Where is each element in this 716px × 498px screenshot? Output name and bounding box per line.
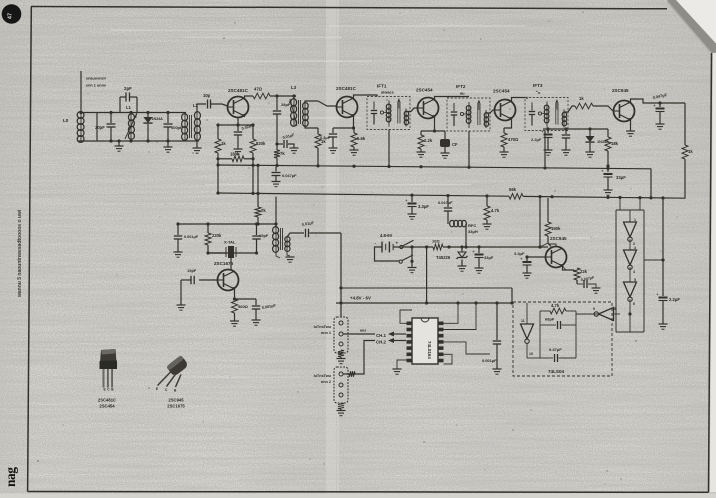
- svg-text:220k: 220k: [212, 233, 222, 238]
- svg-text:30pF: 30pF: [95, 125, 105, 130]
- svg-text:1k: 1k: [579, 96, 584, 101]
- svg-text:0.47μF: 0.47μF: [549, 347, 562, 352]
- svg-text:10p: 10p: [203, 93, 211, 98]
- svg-text:3: 3: [634, 246, 636, 250]
- svg-text:T45226: T45226: [436, 255, 451, 260]
- svg-text:47Ω: 47Ω: [254, 87, 263, 92]
- svg-text:2.2μF: 2.2μF: [531, 137, 542, 142]
- svg-text:RFC: RFC: [468, 223, 476, 228]
- svg-text:22k: 22k: [580, 269, 588, 274]
- svg-text:2SC945: 2SC945: [168, 398, 184, 403]
- svg-text:2SC1675: 2SC1675: [167, 404, 185, 409]
- svg-text:nnn 2: nnn 2: [321, 380, 331, 384]
- svg-text:L3: L3: [291, 85, 297, 90]
- svg-text:68pF: 68pF: [545, 317, 555, 322]
- svg-text:L1: L1: [126, 105, 132, 110]
- svg-text:0.3μF: 0.3μF: [320, 135, 331, 140]
- svg-text:1N34A: 1N34A: [152, 117, 164, 121]
- svg-text:2SC454: 2SC454: [416, 88, 433, 93]
- svg-text:11: 11: [521, 319, 525, 323]
- svg-text:33μF: 33μF: [616, 175, 626, 180]
- svg-text:luTnsTwu: luTnsTwu: [314, 374, 332, 378]
- svg-text:47: 47: [8, 13, 14, 19]
- svg-text:74LS164: 74LS164: [427, 341, 432, 359]
- svg-text:5.6k: 5.6k: [357, 136, 366, 141]
- svg-text:CH.2: CH.2: [376, 340, 387, 345]
- svg-text:10: 10: [529, 352, 533, 356]
- svg-text:+: +: [405, 198, 408, 203]
- svg-text:33μH: 33μH: [468, 229, 478, 234]
- svg-text:56k: 56k: [509, 187, 517, 192]
- svg-text:180k: 180k: [230, 152, 240, 157]
- svg-text:+: +: [541, 129, 544, 134]
- svg-text:1k: 1k: [221, 141, 226, 146]
- svg-text:15pF: 15pF: [259, 233, 269, 238]
- svg-text:470Ω: 470Ω: [508, 137, 519, 142]
- svg-text:820k: 820k: [256, 141, 266, 146]
- svg-text:IFT1: IFT1: [377, 84, 387, 89]
- svg-text:2SC481C: 2SC481C: [336, 86, 357, 91]
- svg-text:+: +: [472, 249, 475, 254]
- svg-text:7k: 7k: [261, 208, 266, 213]
- svg-text:0.001μF: 0.001μF: [184, 235, 199, 239]
- svg-text:74LS04: 74LS04: [548, 369, 565, 374]
- svg-text:CF: CF: [452, 142, 458, 147]
- svg-text:enn 1 unnv: enn 1 unnv: [86, 84, 107, 88]
- svg-text:CH.1: CH.1: [376, 333, 387, 338]
- svg-text:3.3μF: 3.3μF: [514, 251, 525, 256]
- svg-text:+: +: [653, 103, 656, 108]
- svg-text:9: 9: [593, 307, 595, 311]
- svg-text:4.7k: 4.7k: [491, 208, 500, 213]
- svg-text:nag: nag: [3, 467, 18, 487]
- svg-text:+: +: [520, 257, 523, 262]
- svg-text:4.8-6V: 4.8-6V: [380, 233, 393, 238]
- svg-text:1N34A: 1N34A: [597, 140, 609, 144]
- svg-text:2.2μF: 2.2μF: [669, 297, 680, 302]
- svg-text:1: 1: [634, 218, 636, 222]
- svg-text:5: 5: [634, 278, 636, 282]
- svg-text:15pF: 15pF: [187, 268, 197, 273]
- svg-text:2.2k: 2.2k: [424, 138, 433, 143]
- svg-text:4: 4: [633, 270, 635, 274]
- svg-text:+4.8V - 6V: +4.8V - 6V: [350, 296, 371, 301]
- svg-text:0.047μF: 0.047μF: [438, 200, 453, 205]
- svg-text:0.001μF: 0.001μF: [482, 358, 497, 363]
- svg-text:+: +: [656, 292, 659, 297]
- svg-text:4.7k: 4.7k: [551, 303, 560, 308]
- svg-text:+: +: [396, 241, 399, 246]
- svg-text:+: +: [601, 169, 604, 174]
- svg-text:E: E: [104, 388, 106, 392]
- svg-text:560Ω: 560Ω: [238, 304, 249, 309]
- svg-text:enausvnsil: enausvnsil: [86, 77, 106, 81]
- svg-text:7k: 7k: [280, 151, 285, 156]
- svg-text:aiwaes: aiwaes: [381, 90, 394, 95]
- svg-text:2SC945: 2SC945: [550, 236, 567, 241]
- svg-text:L0: L0: [63, 118, 69, 123]
- svg-text:E: E: [156, 387, 158, 391]
- svg-text:6: 6: [633, 302, 635, 306]
- svg-text:au: au: [460, 91, 465, 96]
- svg-text:2SC945: 2SC945: [612, 88, 629, 93]
- svg-text:wannu 5 naountnwesadtoooos o u: wannu 5 naountnwesadtoooos o uwi: [17, 209, 23, 298]
- svg-text:150k: 150k: [551, 226, 561, 231]
- svg-text:luTnsTwu: luTnsTwu: [314, 325, 332, 329]
- svg-text:0.047μF: 0.047μF: [282, 173, 297, 178]
- svg-text:2SC481C: 2SC481C: [98, 398, 116, 403]
- svg-text:2SC454: 2SC454: [493, 89, 510, 94]
- svg-text:nnn 1: nnn 1: [321, 331, 331, 335]
- svg-text:2SC481C: 2SC481C: [228, 88, 249, 93]
- svg-text:18k: 18k: [611, 141, 619, 146]
- svg-text:IFT2: IFT2: [456, 84, 466, 89]
- svg-text:2pF: 2pF: [124, 86, 132, 91]
- svg-text:2SC454: 2SC454: [99, 404, 115, 409]
- svg-text:33μF: 33μF: [484, 255, 494, 260]
- svg-text:ans: ans: [360, 329, 366, 333]
- svg-text:X-TAL: X-TAL: [224, 240, 236, 245]
- svg-text:3.3μF: 3.3μF: [418, 204, 429, 209]
- svg-text:IFT3: IFT3: [533, 83, 543, 88]
- svg-text:10Ω: 10Ω: [432, 239, 440, 244]
- svg-text:1k: 1k: [688, 149, 693, 154]
